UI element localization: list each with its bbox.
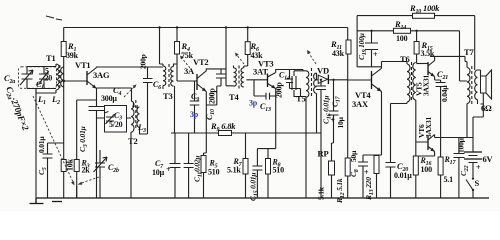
svg-text:10μ: 10μ	[152, 168, 165, 177]
wire VT4 base	[348, 79, 372, 81]
resistor R17 5.1	[438, 155, 456, 198]
wire VT5 collector to T7	[430, 56, 467, 67]
gang dashed link arrows	[33, 96, 99, 198]
svg-text:VT1: VT1	[75, 60, 90, 70]
wire T6 sec top to VT5 base	[417, 63, 428, 65]
svg-text:+: +	[166, 165, 171, 174]
svg-text:100μ: 100μ	[457, 137, 466, 153]
speaker	[478, 70, 493, 113]
svg-text:5/20: 5/20	[109, 120, 123, 129]
capacitor C20 0.01u	[386, 161, 413, 198]
trimmer C3 5/20 box (osc)	[97, 106, 132, 133]
wire emitter to R3	[77, 100, 97, 160]
resistor R3 2k	[74, 159, 90, 199]
svg-text:+: +	[331, 116, 336, 125]
supply bus	[64, 27, 348, 29]
svg-text:3p: 3p	[190, 110, 199, 119]
svg-text:43k: 43k	[332, 49, 345, 58]
label C2a 270pFx2 (rotated)	[2, 85, 31, 133]
capacitor C6 200p	[139, 54, 162, 134]
svg-text:T4: T4	[229, 92, 239, 102]
dashed arrow T4	[235, 53, 244, 65]
resistor R2 10k	[61, 158, 74, 171]
wire gang top/bottom	[27, 67, 56, 96]
svg-text:3AX31: 3AX31	[424, 116, 433, 138]
switch S	[466, 177, 480, 198]
resistor R10 100k	[357, 3, 475, 18]
svg-text:5.1k: 5.1k	[317, 186, 326, 200]
resistor R9 6.8k	[210, 121, 236, 136]
svg-text:+: +	[364, 168, 369, 177]
node A (VT1 base junction)	[62, 80, 65, 83]
capacitor C4 300u (emitter line)	[89, 85, 122, 198]
wire VT3 emitter	[257, 89, 275, 149]
wire T7 primary bottom to VT6 collector	[435, 104, 473, 138]
capacitor C17 10u + RP chain	[329, 80, 345, 143]
labels L1 L2	[37, 94, 60, 106]
resistor R4 75k	[175, 28, 194, 82]
dashed gang box	[19, 67, 57, 89]
svg-text:T3: T3	[163, 91, 173, 101]
resistor R7 5.1k	[227, 133, 248, 198]
svg-text:5.1: 5.1	[444, 175, 454, 184]
svg-text:VT2: VT2	[193, 57, 208, 67]
resistor R1	[61, 41, 78, 60]
AGC wire	[171, 132, 321, 134]
dashed arrow T2	[124, 85, 137, 98]
wire T6 primary bottom to C20	[391, 102, 408, 163]
svg-text:3AT: 3AT	[253, 67, 268, 77]
svg-text:3AX31: 3AX31	[422, 74, 431, 96]
potentiometer RP	[317, 143, 335, 200]
svg-text:510: 510	[273, 166, 285, 175]
svg-text:S: S	[475, 178, 480, 188]
capacitor C2a (tuning gang a)	[4, 67, 33, 89]
capacitor C22 100u	[454, 137, 474, 198]
wire VT2 collector	[206, 28, 233, 86]
capacitor C19 100u	[357, 31, 378, 67]
wire VT1 collector	[97, 66, 164, 69]
svg-text:20: 20	[45, 74, 53, 83]
label T1	[46, 53, 56, 63]
capacitor C13 3p	[249, 80, 276, 113]
wire VT2 emitter	[204, 92, 207, 156]
wire R10 riser	[356, 16, 358, 67]
label C3 0.01u (mid rotated)	[78, 126, 89, 152]
capacitor C8 50u	[349, 150, 369, 198]
svg-text:0.04μ: 0.04μ	[440, 85, 449, 102]
battery 6V	[464, 117, 494, 177]
capacitor C3 (left, 0.01u)	[37, 136, 64, 198]
capacitor C10 200p	[205, 69, 226, 120]
transformer T4	[229, 66, 244, 103]
wire VT6 emitter to R16	[418, 152, 435, 157]
wire VT5 emitter / C21 / R17	[435, 77, 441, 158]
wire speaker/T7 to battery	[473, 104, 483, 117]
inductor L2 (T1 secondary)	[61, 67, 64, 87]
wire T3 sec to VT2 base	[174, 64, 198, 81]
wire R14 to T7 tap	[460, 31, 468, 81]
svg-text:VD: VD	[317, 66, 329, 76]
dashed arrow T5	[307, 50, 316, 64]
transistor VT6	[417, 116, 435, 151]
resistor R16 100	[413, 156, 432, 198]
wire T4 sec to VT3 base	[246, 79, 267, 81]
svg-text:6Ω: 6Ω	[481, 103, 492, 113]
svg-text:3p: 3p	[249, 99, 258, 108]
svg-text:75k: 75k	[181, 51, 194, 60]
resistor R5 510	[201, 156, 220, 199]
resistor R13 220	[364, 155, 379, 201]
wire main left vertical	[63, 28, 65, 199]
wire left vertical (gang common to ground)	[35, 89, 37, 198]
transformer T2 oscillator coil L3	[128, 100, 148, 198]
resistor R15 3.5k	[414, 31, 435, 64]
capacitor C7 10u	[152, 133, 181, 198]
wire T6 sec bottom to R16 and VT6 base	[416, 100, 428, 156]
wire C19 bottom bus	[357, 66, 381, 68]
transformer T7	[464, 47, 478, 104]
svg-text:3AG: 3AG	[93, 70, 110, 80]
svg-text:10μ: 10μ	[336, 116, 345, 128]
capacitor C14 200p	[275, 70, 301, 99]
svg-text:0.01μ: 0.01μ	[394, 171, 412, 180]
svg-text:200p: 200p	[139, 54, 148, 69]
svg-text:5.1k: 5.1k	[227, 166, 241, 175]
ground	[30, 198, 63, 204]
svg-text:0.01μ: 0.01μ	[37, 136, 46, 153]
transistor VT1	[75, 60, 110, 89]
transformer T6	[400, 54, 416, 102]
resistor R14 100	[394, 19, 411, 43]
svg-text:3AX: 3AX	[352, 99, 369, 109]
trimmer C1 5/20	[36, 67, 52, 91]
dashed arrow T3	[180, 56, 190, 69]
svg-text:200p: 200p	[208, 88, 217, 104]
capacitor C21 0.04u	[436, 69, 449, 102]
svg-text:+: +	[373, 50, 378, 59]
svg-text:300μ: 300μ	[101, 94, 117, 103]
svg-text:3A: 3A	[184, 66, 195, 76]
svg-text:100: 100	[396, 34, 408, 43]
svg-text:T5: T5	[296, 94, 306, 104]
svg-text:50μ: 50μ	[349, 150, 358, 162]
transformer T3	[163, 64, 174, 101]
svg-text:2k: 2k	[82, 166, 91, 175]
transistor VT2	[184, 57, 208, 92]
transistor VT3	[253, 59, 276, 89]
wire T5 sec bottom	[316, 93, 318, 133]
stray mark top-left	[46, 16, 62, 20]
wire base VT1	[64, 80, 87, 82]
transformer T5 with cap	[292, 68, 317, 198]
resistor R11 43k	[330, 28, 351, 159]
ground rail	[36, 197, 489, 199]
svg-text:+: +	[476, 163, 481, 172]
svg-text:6V: 6V	[483, 154, 494, 164]
wire VT4 collector to T6	[382, 62, 408, 69]
svg-text:T7: T7	[464, 47, 474, 57]
right rail from R10	[474, 16, 476, 70]
wire bus to T3	[160, 28, 164, 67]
resistor R6 43k	[244, 28, 263, 68]
wire VT1 emitter down	[96, 89, 98, 106]
wire emitter VT4 chain	[363, 92, 382, 156]
svg-text:T1: T1	[46, 53, 56, 63]
diode VD	[317, 66, 348, 85]
resistor R12 5.1k	[335, 158, 350, 204]
inductor L1 (T1 primary)	[36, 64, 59, 93]
capacitor C15 0.01u	[249, 149, 263, 201]
wire osc top	[97, 88, 132, 101]
transistor VT4	[352, 68, 382, 109]
capacitor C11 0.02u	[184, 133, 204, 198]
resistor R8 510	[266, 149, 285, 198]
transistor VT5	[415, 61, 435, 97]
svg-text:T2: T2	[128, 136, 138, 146]
capacitor C9 3p	[190, 81, 200, 133]
wire R14 bus	[357, 30, 459, 32]
svg-text:100: 100	[421, 165, 433, 174]
wire VT3 collector	[276, 70, 303, 73]
svg-text:39k: 39k	[66, 51, 79, 60]
svg-text:T6: T6	[400, 54, 410, 64]
capacitor C2b (tuning gang b)	[94, 150, 119, 198]
wire T3 sec bottom to AGC	[174, 86, 176, 133]
core T1	[59, 65, 61, 90]
capacitor C16 0.01u	[316, 80, 333, 198]
bus junction dots	[158, 26, 418, 81]
svg-text:RP: RP	[318, 149, 329, 159]
svg-text:510: 510	[208, 168, 220, 177]
